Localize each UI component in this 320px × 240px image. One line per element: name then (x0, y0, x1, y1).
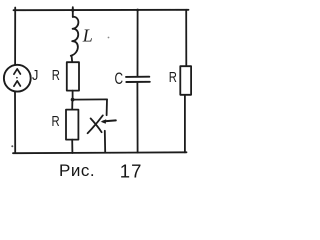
switch SW blade (88, 115, 103, 133)
svg-text:R: R (52, 67, 60, 84)
resistor R3 body (180, 66, 191, 95)
wire capacitor branch lower (136, 83, 138, 153)
wire left rail upper segment (14, 8, 16, 65)
wire capacitor branch upper (137, 10, 139, 76)
current source J circle (4, 65, 31, 92)
wire junction to R2 (71, 100, 73, 110)
wire right rail upper segment (185, 10, 187, 67)
resistor R2 body (66, 110, 78, 140)
svg-text:L: L (82, 26, 93, 46)
svg-text:R: R (52, 113, 60, 130)
capacitor C top plate (126, 76, 149, 78)
wire switch bottom stub (104, 131, 106, 153)
current source J center dot (16, 77, 18, 79)
capacitor C bottom plate (126, 81, 150, 83)
wire left rail lower segment (14, 91, 16, 153)
wire inductor to R1 (71, 56, 74, 62)
wire R2 to bottom rail (71, 140, 73, 153)
wire top rail (14, 9, 189, 11)
svg-text:R: R (169, 69, 177, 86)
resistor R1 body (67, 62, 79, 90)
wire bottom rail (13, 151, 187, 154)
wire junction to switch (horizontal) (73, 98, 107, 100)
svg-text:C: C (115, 70, 124, 88)
junction dot at top of capacitor branch (136, 9, 139, 12)
switch SW cross stroke (91, 118, 102, 132)
current source J upper arrow chevron (14, 69, 21, 74)
wire R1 to junction (72, 91, 74, 100)
svg-text:Рис.: Рис. (59, 161, 95, 180)
inductor L (71, 17, 79, 56)
current source J lower arrow chevron (14, 81, 21, 86)
svg-text:J: J (32, 66, 38, 83)
junction dot at top of inductor branch (71, 9, 74, 12)
svg-text:17: 17 (120, 160, 143, 181)
switch SW arrowhead (101, 119, 107, 124)
junction dot between R1 and R2 (71, 98, 75, 102)
speck noise (108, 37, 110, 39)
wire switch top stub (106, 99, 108, 115)
speck noise left (11, 145, 13, 147)
switch SW arrow shaft (103, 120, 116, 121)
wire right rail lower segment (184, 95, 186, 153)
wire middle branch top stub (72, 7, 74, 17)
